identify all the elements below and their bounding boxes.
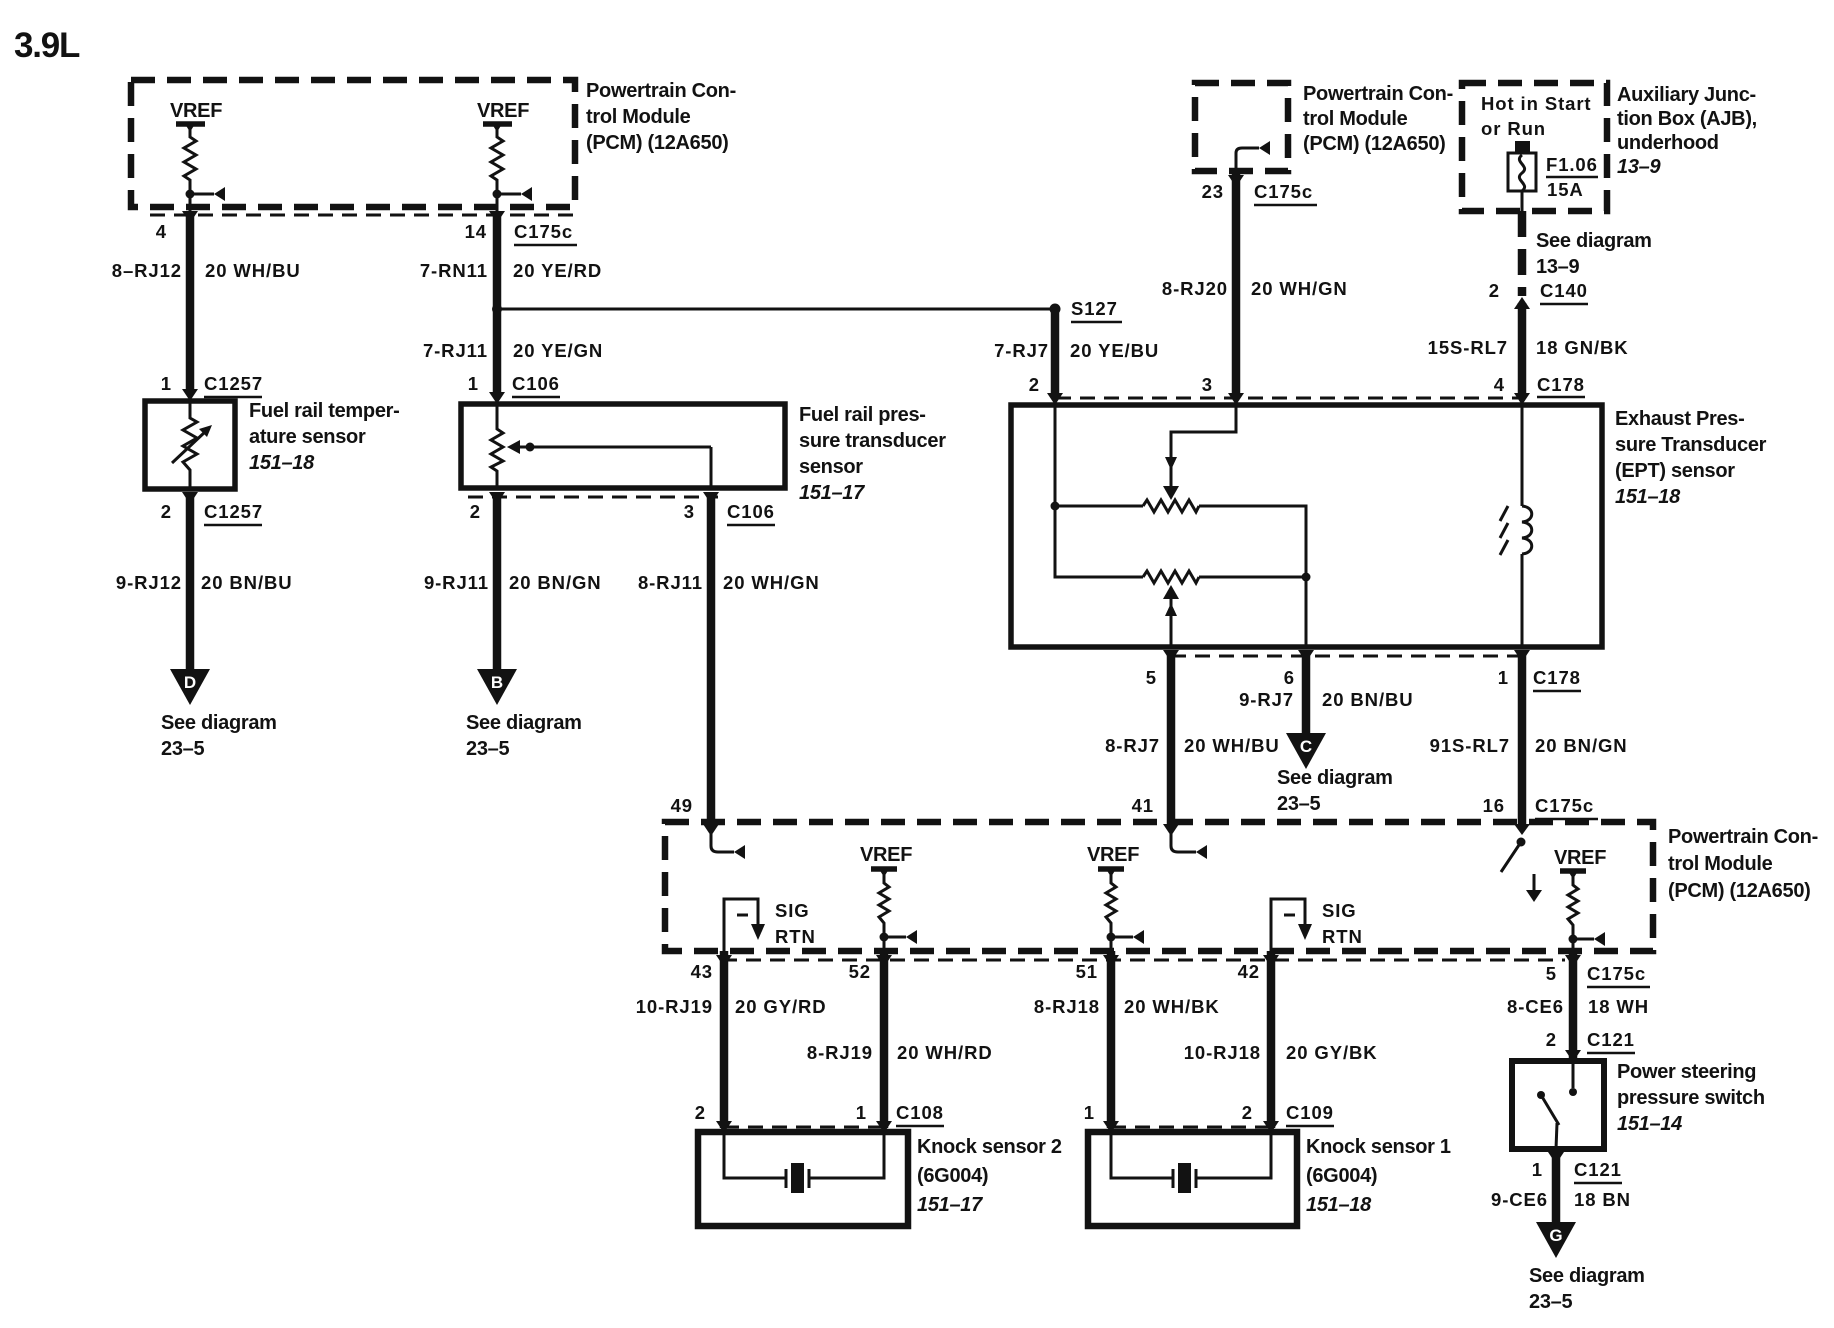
node VREF (PCM pin 51 pull-up) [1087, 844, 1139, 877]
svg-text:14: 14 [465, 221, 487, 242]
svg-text:C175c: C175c [1254, 181, 1313, 202]
connector line C178 (bottom of EPT) [1171, 655, 1522, 658]
resistor VREF pull-up (pin 51) [1106, 873, 1116, 937]
svg-text:151–17: 151–17 [799, 482, 865, 504]
svg-text:20 BN/BU: 20 BN/BU [201, 572, 293, 593]
svg-text:8-RJ19: 8-RJ19 [807, 1042, 873, 1063]
svg-text:2: 2 [161, 501, 172, 522]
svg-text:2: 2 [695, 1102, 706, 1123]
svg-text:8-RJ18: 8-RJ18 [1034, 996, 1100, 1017]
svg-text:B: B [491, 673, 503, 692]
svg-text:15S-RL7: 15S-RL7 [1428, 337, 1508, 358]
pin 52 [849, 955, 892, 982]
connector line C175c under PCM [150, 214, 578, 217]
svg-text:5: 5 [1546, 963, 1557, 984]
svg-text:RTN: RTN [775, 926, 816, 947]
svg-text:23–5: 23–5 [1277, 793, 1320, 815]
pin 1 connector C108 [856, 1102, 944, 1133]
potentiometer element (fuel rail pressure sensor) [491, 404, 711, 488]
auxiliary junction box label [1617, 84, 1757, 178]
wire 8-RJ11 20 WH/GN [638, 492, 820, 824]
svg-text:Exhaust Pres-: Exhaust Pres- [1615, 408, 1745, 430]
svg-text:23–5: 23–5 [466, 738, 509, 760]
svg-text:9-RJ12: 9-RJ12 [116, 572, 182, 593]
EPT internal node (pin2 to R-upper) [1051, 405, 1144, 577]
svg-text:SIG: SIG [1322, 900, 1357, 921]
svg-text:151–18: 151–18 [1306, 1194, 1372, 1216]
wire 9-RJ7 20 BN/BU [1239, 650, 1413, 734]
node C (circuit continuation) [1277, 733, 1393, 815]
connector line C106 [468, 496, 718, 499]
wire 8-RJ20 20 WH/GN [1162, 171, 1348, 398]
svg-text:8-RJ20: 8-RJ20 [1162, 278, 1228, 299]
svg-text:20 BN/BU: 20 BN/BU [1322, 689, 1414, 710]
svg-text:20 WH/BU: 20 WH/BU [1184, 735, 1280, 756]
svg-text:C109: C109 [1286, 1102, 1334, 1123]
resistor VREF pull-up (pin 14) [491, 128, 503, 194]
svg-text:C140: C140 [1540, 280, 1588, 301]
fuel rail pressure transducer sensor label [799, 404, 946, 504]
svg-text:VREF: VREF [170, 100, 222, 122]
svg-text:F1.06: F1.06 [1546, 154, 1598, 175]
wire 8-RJ7 20 WH/BU [1105, 650, 1280, 824]
pin 49 [671, 795, 719, 836]
svg-text:51: 51 [1076, 961, 1098, 982]
svg-text:trol Module: trol Module [1668, 853, 1773, 875]
node sense arrow (pin 4) [186, 187, 226, 201]
knock sensor 2 label [917, 1136, 1062, 1216]
wire 10-RJ19 20 GY/RD [636, 951, 827, 1128]
pin 3 connector C178 [1202, 374, 1244, 405]
svg-text:4: 4 [1494, 374, 1505, 395]
wire fuse feed (dashed, see diagram 13-9) [1522, 211, 1652, 296]
svg-text:151–17: 151–17 [917, 1194, 983, 1216]
node VREF (PCM pin 4 pull-up) [170, 100, 222, 132]
svg-text:SIG: SIG [775, 900, 810, 921]
wire 8-RJ18 20 WH/BK [1034, 951, 1220, 1128]
svg-text:7-RJ7: 7-RJ7 [994, 340, 1049, 361]
svg-text:4: 4 [156, 221, 167, 242]
svg-text:(6G004): (6G004) [917, 1165, 988, 1187]
connector C175c (pin 14) [514, 221, 577, 245]
svg-text:C178: C178 [1533, 667, 1581, 688]
svg-text:5: 5 [1146, 667, 1157, 688]
svg-text:43: 43 [691, 961, 713, 982]
svg-text:20 WH/BU: 20 WH/BU [205, 260, 301, 281]
knock sensor 1 box [1088, 1132, 1297, 1226]
pin 1 connector C1257 [161, 373, 263, 401]
wire 7-RN11 20 YE/RD [420, 194, 602, 309]
svg-text:Hot in Start: Hot in Start [1481, 93, 1592, 114]
svg-text:(6G004): (6G004) [1306, 1165, 1377, 1187]
PCM top-right internal stub arrow [1236, 141, 1270, 171]
svg-text:Knock sensor 2: Knock sensor 2 [917, 1136, 1062, 1158]
node VREF (PCM pin 52 pull-up) [860, 844, 912, 877]
fuel rail temperature sensor label [249, 400, 400, 474]
PCM module box top-left (12A650) [131, 80, 575, 207]
svg-text:8-RJ7: 8-RJ7 [1105, 735, 1160, 756]
PCM bottom label [1668, 826, 1818, 902]
PCM module box bottom (12A650) [665, 822, 1653, 951]
svg-text:underhood: underhood [1617, 132, 1719, 154]
svg-text:(PCM) (12A650): (PCM) (12A650) [1303, 133, 1446, 155]
pin 2 wire 7-RJ7 20 YE/BU [994, 309, 1159, 405]
Auxiliary Junction Box dashed box (hot in start or run) [1462, 83, 1607, 211]
svg-text:C1257: C1257 [204, 501, 263, 522]
svg-text:20 WH/BK: 20 WH/BK [1124, 996, 1220, 1017]
node sense arrow (pin 52) [880, 930, 918, 951]
svg-text:52: 52 [849, 961, 871, 982]
svg-text:pressure switch: pressure switch [1617, 1087, 1765, 1109]
svg-text:151–18: 151–18 [249, 452, 315, 474]
svg-text:C178: C178 [1537, 374, 1585, 395]
pressure switch element [1537, 1061, 1577, 1149]
EPT internal resistor R-upper [1143, 500, 1199, 512]
EPT sensor label [1615, 408, 1767, 508]
svg-text:23: 23 [1202, 181, 1224, 202]
pin 4 [156, 211, 198, 242]
pin 23 connector C175c [1202, 175, 1317, 205]
svg-text:6: 6 [1284, 667, 1295, 688]
knock sensor 2 piezo element [724, 1132, 884, 1193]
pin 2 connector C121 [1546, 1029, 1635, 1062]
svg-text:10-RJ19: 10-RJ19 [636, 996, 713, 1017]
pin 2 connector C109 [1242, 1102, 1334, 1133]
svg-text:1: 1 [1532, 1159, 1543, 1180]
svg-text:C175c: C175c [1587, 963, 1646, 984]
pin 42 [1238, 955, 1279, 982]
svg-text:See diagram: See diagram [1536, 230, 1652, 252]
svg-text:C1257: C1257 [204, 373, 263, 394]
svg-text:C108: C108 [896, 1102, 944, 1123]
pin 6 connector C178 [1284, 650, 1314, 688]
PCM internal SIG RTN (pin 43) [724, 899, 816, 951]
fuel rail temperature sensor box [145, 401, 235, 489]
PCM internal SIG RTN (pin 42) [1271, 899, 1363, 951]
node G (circuit continuation) [1529, 1222, 1645, 1313]
pin 1 connector C106 [468, 373, 560, 404]
svg-text:8-CE6: 8-CE6 [1507, 996, 1564, 1017]
svg-text:(PCM) (12A650): (PCM) (12A650) [586, 132, 729, 154]
wire 9-CE6 18 BN [1491, 1152, 1631, 1223]
svg-text:Power steering: Power steering [1617, 1061, 1756, 1083]
svg-text:7-RJ11: 7-RJ11 [423, 340, 488, 361]
svg-text:18 GN/BK: 18 GN/BK [1536, 337, 1629, 358]
svg-text:41: 41 [1132, 795, 1154, 816]
svg-text:Fuel rail temper-: Fuel rail temper- [249, 400, 400, 422]
svg-text:(PCM) (12A650): (PCM) (12A650) [1668, 880, 1811, 902]
svg-text:S127: S127 [1071, 298, 1118, 319]
power steering pressure switch label [1617, 1061, 1765, 1135]
svg-text:sensor: sensor [799, 456, 863, 478]
svg-text:16: 16 [1483, 795, 1505, 816]
PCM internal stub arrow (pin 49) [711, 832, 745, 859]
svg-text:Powertrain Con-: Powertrain Con- [586, 80, 736, 102]
svg-text:1: 1 [1084, 1102, 1095, 1123]
svg-text:15A: 15A [1547, 179, 1584, 200]
pin 51 [1076, 955, 1119, 982]
pin 1 connector C109 [1084, 1102, 1119, 1133]
PCM top-left label [586, 80, 736, 154]
svg-text:See diagram: See diagram [1529, 1265, 1645, 1287]
svg-text:3.9L: 3.9L [14, 26, 80, 65]
svg-text:VREF: VREF [860, 844, 912, 866]
svg-text:C: C [1300, 737, 1312, 756]
svg-text:1: 1 [1498, 667, 1509, 688]
svg-text:VREF: VREF [477, 100, 529, 122]
svg-text:Knock sensor 1: Knock sensor 1 [1306, 1136, 1451, 1158]
svg-text:See diagram: See diagram [466, 712, 582, 734]
svg-text:91S-RL7: 91S-RL7 [1430, 735, 1510, 756]
svg-text:49: 49 [671, 795, 693, 816]
thermistor element (fuel rail temperature sensor) [172, 401, 212, 489]
connector line C108 [724, 1126, 884, 1129]
svg-text:trol Module: trol Module [586, 106, 691, 128]
power steering pressure switch box [1512, 1061, 1604, 1149]
EPT internal resistor R-lower [1143, 571, 1199, 583]
pin 2 connector C1257 [161, 492, 263, 525]
svg-text:C175c: C175c [1535, 795, 1594, 816]
svg-text:tion Box (AJB),: tion Box (AJB), [1617, 108, 1757, 130]
svg-text:or Run: or Run [1481, 118, 1546, 139]
svg-text:sure transducer: sure transducer [799, 430, 946, 452]
svg-text:9-RJ11: 9-RJ11 [424, 572, 489, 593]
svg-text:9-RJ7: 9-RJ7 [1239, 689, 1294, 710]
knock sensor 1 label [1306, 1136, 1451, 1216]
wire 9-RJ11 20 BN/GN [424, 492, 602, 670]
svg-text:13–9: 13–9 [1617, 156, 1661, 178]
pin 2 connector C140 [1489, 280, 1588, 309]
knock sensor 1 piezo element [1111, 1132, 1271, 1193]
PCM internal stub arrow (pin 41) [1171, 832, 1207, 859]
svg-text:ature sensor: ature sensor [249, 426, 366, 448]
svg-text:20 GY/BK: 20 GY/BK [1286, 1042, 1378, 1063]
connector line C178 (top of EPT) [1056, 397, 1522, 400]
svg-text:2: 2 [1489, 280, 1500, 301]
svg-text:2: 2 [1546, 1029, 1557, 1050]
svg-text:C121: C121 [1587, 1029, 1635, 1050]
svg-text:D: D [184, 673, 196, 692]
svg-text:18 BN: 18 BN [1574, 1189, 1631, 1210]
svg-text:Auxiliary Junc-: Auxiliary Junc- [1617, 84, 1756, 106]
EPT internal wiper from pin 3 [1163, 405, 1236, 500]
PCM internal switch (pin 16) [1501, 838, 1542, 903]
pin 5 connector C178 [1146, 650, 1179, 688]
node sense arrow (pin 5) [1569, 932, 1606, 951]
svg-text:10-RJ18: 10-RJ18 [1184, 1042, 1261, 1063]
svg-text:2: 2 [1242, 1102, 1253, 1123]
svg-text:VREF: VREF [1554, 847, 1606, 869]
svg-text:9-CE6: 9-CE6 [1491, 1189, 1548, 1210]
pin 3 connector C106 [684, 492, 775, 525]
svg-text:3: 3 [684, 501, 695, 522]
svg-text:C106: C106 [512, 373, 560, 394]
svg-text:20 YE/BU: 20 YE/BU [1070, 340, 1159, 361]
EPT internal wire R right ends to pin 6 [1199, 506, 1311, 647]
svg-text:sure Transducer: sure Transducer [1615, 434, 1767, 456]
node sense arrow (pin 51) [1107, 930, 1145, 951]
svg-text:8–RJ12: 8–RJ12 [112, 260, 182, 281]
svg-text:1: 1 [856, 1102, 867, 1123]
knock sensor 2 box [698, 1132, 908, 1226]
pin 43 [691, 955, 732, 982]
svg-text:VREF: VREF [1087, 844, 1139, 866]
splice S127 [492, 298, 1122, 322]
svg-text:151–18: 151–18 [1615, 486, 1681, 508]
svg-text:2: 2 [470, 501, 481, 522]
wire 8-CE6 18 WH [1507, 951, 1649, 1061]
wire 8-RJ12 20 WH/BU [112, 194, 301, 394]
node VREF (PCM pin 14 pull-up) [477, 100, 529, 132]
svg-text:C175c: C175c [514, 221, 573, 242]
svg-text:Powertrain Con-: Powertrain Con- [1303, 83, 1453, 105]
wire 8-RJ19 20 WH/RD [807, 951, 993, 1128]
wire 10-RJ18 20 GY/BK [1184, 951, 1378, 1128]
svg-text:See diagram: See diagram [1277, 767, 1393, 789]
pin 1 connector C178 [1498, 650, 1581, 691]
svg-text:23–5: 23–5 [1529, 1291, 1572, 1313]
svg-text:trol Module: trol Module [1303, 108, 1408, 130]
svg-text:(EPT) sensor: (EPT) sensor [1615, 460, 1735, 482]
svg-text:8-RJ11: 8-RJ11 [638, 572, 703, 593]
pin 41 [1132, 795, 1179, 836]
svg-text:20 WH/RD: 20 WH/RD [897, 1042, 993, 1063]
pin 1 connector C121 [1532, 1152, 1622, 1183]
svg-text:151–14: 151–14 [1617, 1113, 1682, 1135]
svg-text:20 BN/GN: 20 BN/GN [1535, 735, 1628, 756]
svg-text:20 WH/GN: 20 WH/GN [1251, 278, 1348, 299]
PCM module box top-right (12A650) [1195, 83, 1288, 171]
resistor VREF pull-up (pin 5) [1568, 875, 1578, 939]
svg-text:Fuel rail pres-: Fuel rail pres- [799, 404, 926, 426]
svg-text:18 WH: 18 WH [1588, 996, 1649, 1017]
node VREF (PCM pin 5 pull-up) [1554, 847, 1606, 879]
node sense arrow (pin 14) [493, 187, 533, 201]
svg-text:23–5: 23–5 [161, 738, 204, 760]
svg-text:C106: C106 [727, 501, 775, 522]
wire 91S-RL7 20 BN/GN [1430, 650, 1628, 824]
wire 9-RJ12 20 BN/BU [116, 492, 293, 670]
svg-text:Powertrain Con-: Powertrain Con- [1668, 826, 1818, 848]
EPT internal coil element (pin 4 to pin 1) [1500, 405, 1532, 647]
EPT internal wiper to pin 5 [1163, 585, 1179, 647]
svg-text:20 BN/GN: 20 BN/GN [509, 572, 602, 593]
fuse F1.06 15A [1508, 141, 1598, 211]
wire 7-RJ11 20 YE/GN [423, 309, 603, 395]
svg-text:13–9: 13–9 [1536, 256, 1579, 278]
svg-text:20 YE/RD: 20 YE/RD [513, 260, 602, 281]
svg-text:20 GY/RD: 20 GY/RD [735, 996, 827, 1017]
svg-text:RTN: RTN [1322, 926, 1363, 947]
svg-text:2: 2 [1029, 374, 1040, 395]
pin 4 connector C178 [1494, 374, 1585, 405]
svg-text:42: 42 [1238, 961, 1260, 982]
pin 2 connector C106 [470, 492, 505, 522]
resistor VREF pull-up (pin 4) [184, 128, 196, 194]
svg-text:7-RN11: 7-RN11 [420, 260, 488, 281]
svg-text:C121: C121 [1574, 1159, 1622, 1180]
svg-text:3: 3 [1202, 374, 1213, 395]
svg-text:G: G [1549, 1226, 1562, 1245]
node B (circuit continuation) [466, 669, 582, 760]
hot in start or run label [1481, 93, 1592, 139]
connector line C109 [1111, 1126, 1271, 1129]
svg-text:See diagram: See diagram [161, 712, 277, 734]
PCM top-right label [1303, 83, 1453, 155]
title 3.9L [14, 26, 80, 65]
connector line under bottom PCM [722, 959, 1565, 962]
resistor VREF pull-up (pin 52) [879, 873, 889, 937]
pin 16 connector C175c [1483, 795, 1598, 835]
svg-text:20 WH/GN: 20 WH/GN [723, 572, 820, 593]
pin 2 connector C108 [695, 1102, 732, 1133]
wire 15S-RL7 18 GN/BK [1428, 303, 1629, 398]
pin 14 [465, 211, 505, 242]
svg-text:20 YE/GN: 20 YE/GN [513, 340, 603, 361]
exhaust pressure transducer (EPT) sensor box [1011, 405, 1602, 647]
pin 5 connector C175c [1546, 955, 1650, 987]
svg-text:1: 1 [161, 373, 172, 394]
svg-text:1: 1 [468, 373, 479, 394]
node D (circuit continuation) [161, 669, 277, 760]
fuel rail pressure transducer sensor box [461, 404, 785, 488]
